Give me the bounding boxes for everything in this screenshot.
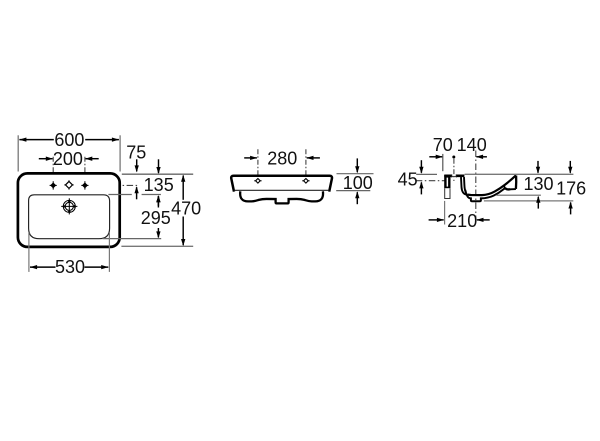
dim line 530 left segment <box>30 266 56 268</box>
dim 130 up arrow <box>537 197 539 209</box>
side: rim front right edge <box>515 176 518 189</box>
top edge extension line (right of plan) <box>122 173 193 175</box>
arrowhead 530 right <box>101 265 108 269</box>
svg-text:470: 470 <box>171 198 201 218</box>
dim 70/140 line left segment with arrow <box>429 156 442 158</box>
176 bottom boundary line <box>484 200 573 202</box>
svg-text:295: 295 <box>141 208 171 228</box>
centerline through hole 3 <box>84 157 86 189</box>
svg-text:135: 135 <box>144 175 174 195</box>
outer rim of basin (plan) <box>18 173 120 247</box>
front fixing hole left <box>254 179 261 184</box>
45 top boundary line <box>416 173 437 175</box>
svg-text:280: 280 <box>267 148 297 168</box>
135 boundary line segment a <box>108 194 131 196</box>
centerline hole right (front) <box>305 149 307 186</box>
side: top rim edge <box>444 174 464 177</box>
fixing hole 3 (filled diamond) <box>81 181 88 189</box>
side: fixing hole horizontal centerline <box>416 180 450 182</box>
dim 176 down arrow <box>569 161 571 173</box>
dim line 200 right arrow <box>86 158 99 160</box>
arrowhead 600 right <box>112 137 119 141</box>
dim line 600 right segment <box>85 139 119 141</box>
fixing hole 1 (filled diamond) <box>50 181 57 189</box>
dim line 530 right segment <box>85 266 109 268</box>
dim line 200 left arrow <box>39 158 53 160</box>
dim 75 down arrow <box>136 159 138 171</box>
svg-text:130: 130 <box>523 174 553 194</box>
dim 100 up arrow <box>356 192 358 204</box>
135 boundary line segment b <box>142 194 161 196</box>
dim 130 down arrow <box>537 161 539 173</box>
extension line 530 left <box>28 233 30 272</box>
dim 135 up arrow <box>157 196 159 207</box>
dim 210 right segment with arrow <box>477 219 490 221</box>
drain target symbol <box>61 198 77 214</box>
svg-text:100: 100 <box>343 173 373 193</box>
horizontal centerline of fixing holes <box>88 184 138 186</box>
295 bottom boundary line <box>102 238 161 240</box>
front fixing hole right <box>302 179 309 184</box>
svg-text:140: 140 <box>457 135 487 155</box>
front rim bottom line <box>234 189 328 191</box>
dim 135 down arrow <box>158 159 160 173</box>
side: fixing axis vertical centerline <box>453 159 455 181</box>
dim line 470 top segment with up arrow <box>182 176 184 200</box>
arrowhead 530 left <box>30 265 37 269</box>
dim 210 left segment with arrow <box>429 219 444 221</box>
svg-text:75: 75 <box>126 143 146 163</box>
side: exterior underside with drain boss <box>465 188 505 201</box>
extension line wall top (70 dim) <box>442 154 444 171</box>
centerline hole left (front) <box>257 149 259 186</box>
100 top extension line <box>337 173 374 175</box>
bottom edge extension line (right of plan) <box>121 245 193 247</box>
side: bowl back wall inner surface <box>461 177 467 195</box>
dim 70/140 dot terminator <box>452 156 455 159</box>
svg-text:45: 45 <box>398 170 418 190</box>
dim 176 up arrow <box>570 203 572 215</box>
centerline through hole 1 <box>52 157 54 189</box>
dim 295 up arrow <box>157 196 159 206</box>
extension line left of 600 dim <box>17 135 19 171</box>
100 bottom extension line <box>336 190 370 192</box>
dim 280 left arrow <box>244 157 257 159</box>
side: rim front drip hook <box>505 186 510 189</box>
side: rim front bottom edge <box>510 188 516 190</box>
dim line 470 bottom segment with down arrow <box>182 217 184 246</box>
extension line right of 600 dim <box>119 135 121 171</box>
extension line 530 right <box>108 233 110 272</box>
faucet hole 2 (open diamond) <box>64 180 73 189</box>
130 bottom boundary line <box>496 194 541 196</box>
side: bowl back wall outer surface <box>464 177 466 192</box>
side: drain axis vertical centerline <box>475 151 477 223</box>
side: wall bracket upper (black) <box>444 175 450 188</box>
dim 100 down arrow <box>356 158 358 172</box>
inner bowl outline (plan) <box>29 195 110 239</box>
svg-text:530: 530 <box>55 257 85 277</box>
svg-text:200: 200 <box>53 149 83 169</box>
extension line 210 left <box>444 201 446 225</box>
svg-text:176: 176 <box>556 179 586 199</box>
side top extension line (130/176) <box>465 173 574 175</box>
side: bowl interior bottom and front slope <box>468 175 517 195</box>
svg-text:210: 210 <box>447 211 477 231</box>
dim 280 right arrow <box>307 157 320 159</box>
side: fixing hole notch in rim <box>452 174 457 177</box>
dim 45 down arrow <box>420 160 422 173</box>
front underside profile <box>240 191 323 203</box>
arrowhead 600 left <box>19 137 26 141</box>
svg-text:600: 600 <box>54 130 84 150</box>
front rim block outline <box>231 176 332 192</box>
dim line 600 left segment <box>19 139 53 141</box>
dim 70/140 right segment with arrow <box>476 156 487 158</box>
svg-text:70: 70 <box>433 135 453 155</box>
dim 45 up arrow <box>420 182 422 194</box>
dim 295 down arrow <box>157 228 159 237</box>
dim 75 up arrow <box>136 187 138 199</box>
side: wall bracket lower (outline) <box>445 188 450 198</box>
